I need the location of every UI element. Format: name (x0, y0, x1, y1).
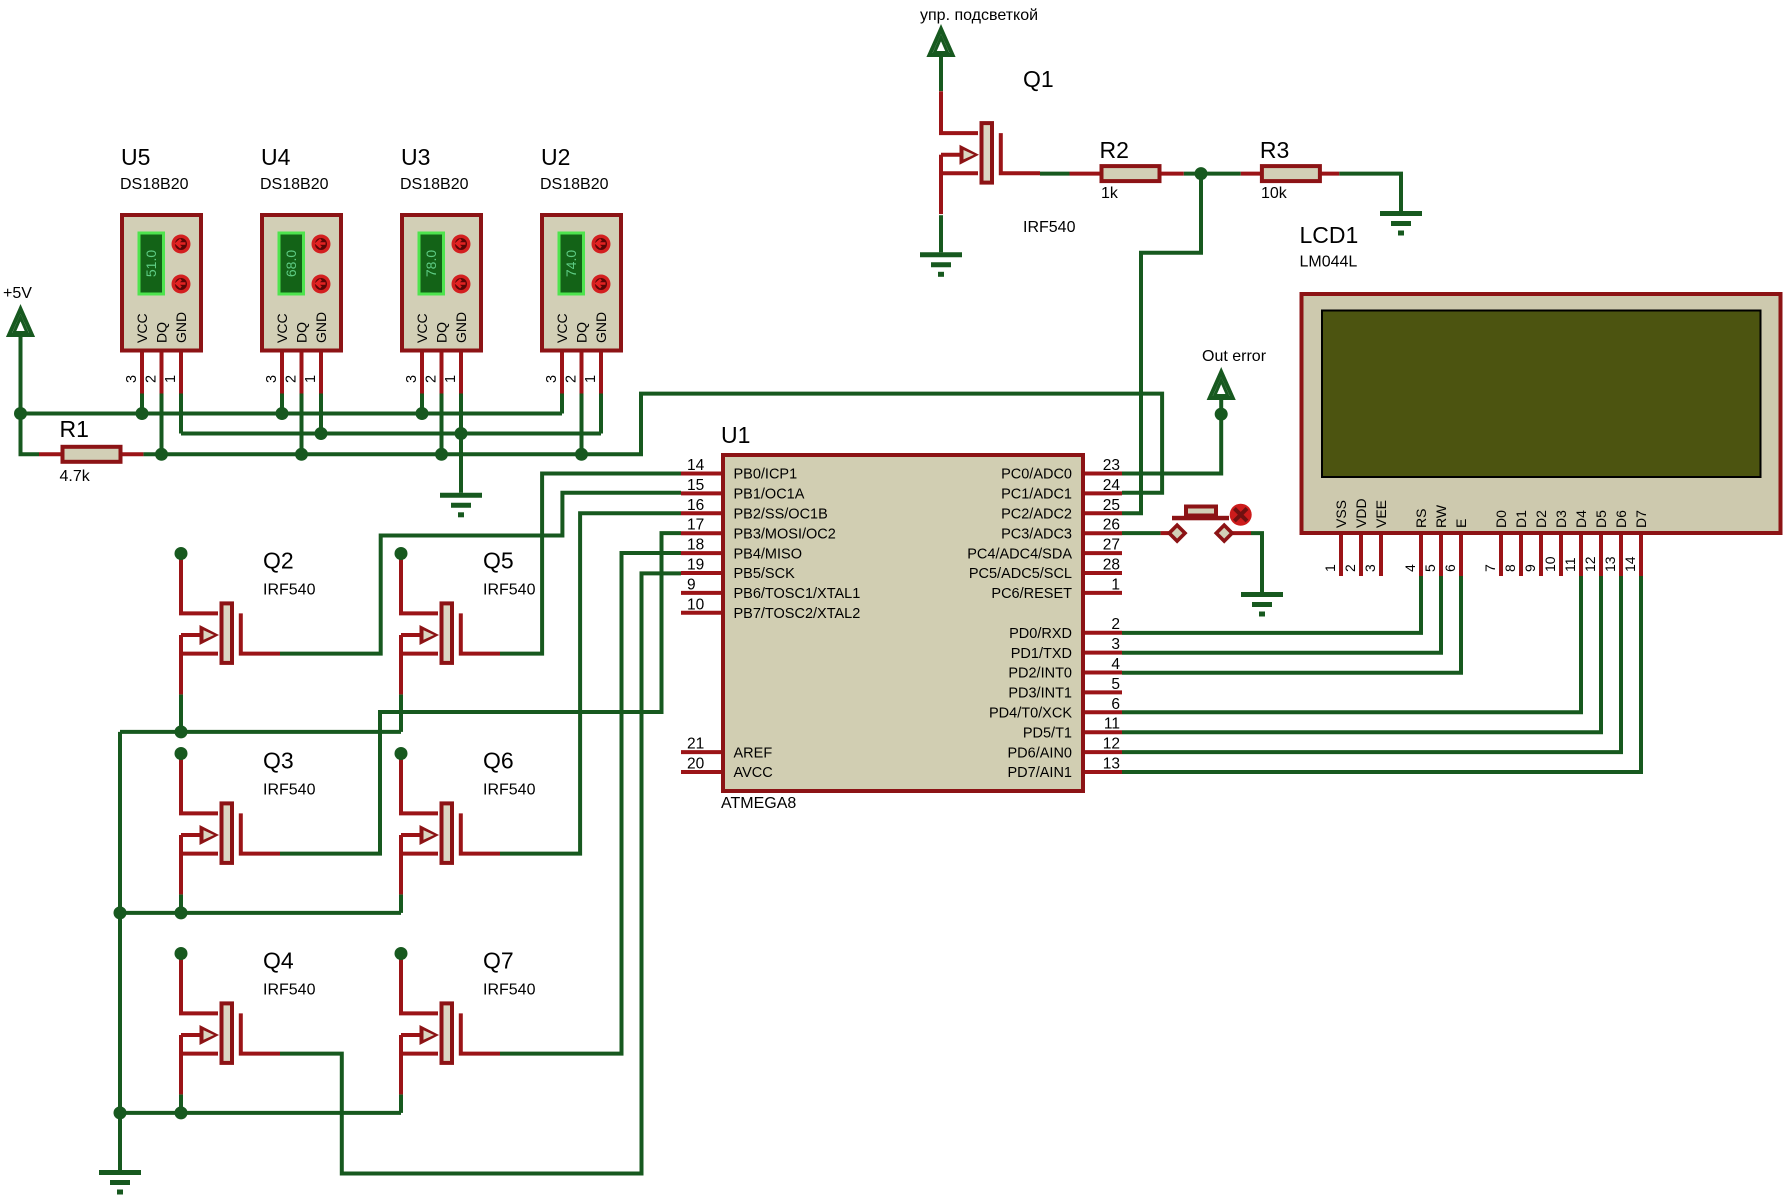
svg-text:Q3: Q3 (263, 748, 294, 774)
svg-text:PD3/INT1: PD3/INT1 (1008, 686, 1072, 702)
svg-text:2: 2 (1342, 564, 1358, 572)
svg-text:PD7/AIN1: PD7/AIN1 (1008, 765, 1072, 781)
svg-text:7: 7 (1482, 564, 1498, 572)
svg-text:PD6/AIN0: PD6/AIN0 (1008, 745, 1072, 761)
svg-text:13: 13 (1602, 556, 1618, 572)
svg-text:PD2/INT0: PD2/INT0 (1008, 666, 1072, 682)
svg-text:1: 1 (1111, 576, 1120, 593)
svg-text:1: 1 (1322, 564, 1338, 572)
svg-text:U5: U5 (121, 144, 150, 170)
svg-text:6: 6 (1442, 564, 1458, 572)
svg-text:D2: D2 (1533, 510, 1549, 528)
svg-text:Q6: Q6 (483, 748, 514, 774)
svg-text:18: 18 (687, 537, 704, 554)
svg-text:PC5/ADC5/SCL: PC5/ADC5/SCL (969, 566, 1072, 582)
svg-text:10k: 10k (1261, 185, 1288, 202)
svg-text:74.0: 74.0 (563, 250, 579, 277)
svg-text:DQ: DQ (574, 322, 590, 343)
svg-text:26: 26 (1103, 517, 1120, 534)
svg-text:VCC: VCC (134, 313, 150, 343)
svg-text:DS18B20: DS18B20 (120, 176, 189, 193)
svg-text:D0: D0 (1493, 510, 1509, 528)
svg-text:PC1/ADC1: PC1/ADC1 (1001, 487, 1072, 503)
svg-text:VEE: VEE (1373, 500, 1389, 528)
svg-text:GND: GND (173, 312, 189, 343)
svg-text:1: 1 (583, 375, 599, 383)
svg-text:21: 21 (687, 736, 704, 753)
svg-text:8: 8 (1502, 564, 1518, 572)
svg-text:GND: GND (453, 312, 469, 343)
svg-text:Q5: Q5 (483, 548, 514, 574)
svg-text:9: 9 (687, 576, 696, 593)
svg-text:4.7k: 4.7k (60, 468, 91, 485)
svg-text:IRF540: IRF540 (1023, 219, 1076, 236)
svg-text:PB1/OC1A: PB1/OC1A (734, 487, 805, 503)
svg-text:4: 4 (1111, 656, 1120, 673)
svg-text:U3: U3 (401, 144, 430, 170)
svg-text:GND: GND (593, 312, 609, 343)
svg-text:PD0/RXD: PD0/RXD (1009, 626, 1072, 642)
svg-text:DQ: DQ (294, 322, 310, 343)
svg-text:PB5/SCK: PB5/SCK (734, 566, 796, 582)
svg-text:IRF540: IRF540 (483, 982, 536, 999)
svg-text:PD5/T1: PD5/T1 (1023, 725, 1072, 741)
svg-text:R2: R2 (1100, 137, 1129, 163)
svg-text:2: 2 (144, 375, 160, 383)
svg-text:PB4/MISO: PB4/MISO (734, 546, 803, 562)
svg-text:1k: 1k (1101, 185, 1119, 202)
svg-text:D5: D5 (1593, 510, 1609, 528)
svg-text:AVCC: AVCC (734, 765, 773, 781)
svg-text:3: 3 (404, 375, 420, 383)
svg-text:VCC: VCC (274, 313, 290, 343)
svg-text:PB0/ICP1: PB0/ICP1 (734, 467, 798, 483)
svg-text:PC0/ADC0: PC0/ADC0 (1001, 467, 1072, 483)
svg-text:PB3/MOSI/OC2: PB3/MOSI/OC2 (734, 526, 836, 542)
svg-text:10: 10 (1542, 556, 1558, 572)
svg-text:D1: D1 (1513, 510, 1529, 528)
svg-text:6: 6 (1111, 696, 1120, 713)
svg-text:12: 12 (1103, 736, 1120, 753)
svg-text:12: 12 (1582, 556, 1598, 572)
svg-text:DQ: DQ (154, 322, 170, 343)
svg-text:14: 14 (1622, 556, 1638, 572)
svg-text:10: 10 (687, 596, 705, 613)
svg-text:+5V: +5V (3, 285, 32, 302)
svg-text:DS18B20: DS18B20 (260, 176, 329, 193)
svg-text:PD1/TXD: PD1/TXD (1011, 646, 1072, 662)
svg-text:VSS: VSS (1333, 500, 1349, 528)
svg-text:VCC: VCC (414, 313, 430, 343)
svg-text:3: 3 (124, 375, 140, 383)
svg-text:LM044L: LM044L (1300, 254, 1358, 271)
svg-text:DQ: DQ (434, 322, 450, 343)
svg-text:28: 28 (1103, 557, 1120, 574)
svg-text:DS18B20: DS18B20 (400, 176, 469, 193)
svg-text:Q2: Q2 (263, 548, 294, 574)
svg-text:17: 17 (687, 517, 704, 534)
svg-text:PC6/RESET: PC6/RESET (991, 586, 1072, 602)
svg-text:U1: U1 (721, 422, 750, 448)
svg-text:2: 2 (1111, 616, 1120, 633)
svg-text:2: 2 (284, 375, 300, 383)
svg-text:1: 1 (443, 375, 459, 383)
svg-text:PB7/TOSC2/XTAL2: PB7/TOSC2/XTAL2 (734, 606, 861, 622)
svg-text:23: 23 (1103, 457, 1120, 474)
svg-text:Out error: Out error (1202, 348, 1267, 365)
svg-text:3: 3 (544, 375, 560, 383)
svg-text:PC2/ADC2: PC2/ADC2 (1001, 507, 1072, 523)
svg-text:Q7: Q7 (483, 948, 514, 974)
svg-text:IRF540: IRF540 (483, 582, 536, 599)
svg-text:U2: U2 (541, 144, 570, 170)
svg-text:D4: D4 (1573, 510, 1589, 528)
svg-text:упр. подсветкой: упр. подсветкой (920, 7, 1038, 24)
svg-text:PC4/ADC4/SDA: PC4/ADC4/SDA (967, 546, 1072, 562)
svg-text:IRF540: IRF540 (263, 782, 316, 799)
svg-text:GND: GND (313, 312, 329, 343)
svg-text:Q4: Q4 (263, 948, 294, 974)
svg-text:R3: R3 (1260, 137, 1289, 163)
svg-text:R1: R1 (60, 416, 89, 442)
svg-text:VCC: VCC (554, 313, 570, 343)
svg-text:LCD1: LCD1 (1300, 222, 1359, 248)
svg-text:16: 16 (687, 497, 704, 514)
svg-text:U4: U4 (261, 144, 291, 170)
svg-text:IRF540: IRF540 (263, 982, 316, 999)
svg-text:24: 24 (1103, 477, 1121, 494)
svg-text:D7: D7 (1633, 510, 1649, 528)
svg-text:E: E (1453, 519, 1469, 528)
svg-text:20: 20 (687, 756, 705, 773)
svg-text:14: 14 (687, 457, 705, 474)
svg-text:1: 1 (303, 375, 319, 383)
svg-text:3: 3 (1111, 636, 1120, 653)
svg-text:3: 3 (1362, 564, 1378, 572)
svg-text:RW: RW (1433, 504, 1449, 528)
svg-text:PD4/T0/XCK: PD4/T0/XCK (989, 706, 1072, 722)
svg-text:VDD: VDD (1353, 498, 1369, 528)
svg-text:IRF540: IRF540 (263, 582, 316, 599)
svg-text:51.0: 51.0 (143, 250, 159, 277)
svg-text:25: 25 (1103, 497, 1120, 514)
svg-text:2: 2 (564, 375, 580, 383)
svg-text:68.0: 68.0 (283, 250, 299, 277)
svg-text:1: 1 (163, 375, 179, 383)
svg-text:3: 3 (264, 375, 280, 383)
svg-text:19: 19 (687, 557, 704, 574)
svg-text:5: 5 (1422, 564, 1438, 572)
svg-text:13: 13 (1103, 756, 1120, 773)
svg-text:2: 2 (424, 375, 440, 383)
svg-text:9: 9 (1522, 564, 1538, 572)
svg-text:15: 15 (687, 477, 704, 494)
svg-text:ATMEGA8: ATMEGA8 (721, 795, 796, 812)
svg-text:11: 11 (1104, 716, 1120, 733)
svg-text:RS: RS (1413, 509, 1429, 528)
svg-text:PB2/SS/OC1B: PB2/SS/OC1B (734, 507, 828, 523)
svg-text:PC3/ADC3: PC3/ADC3 (1001, 526, 1072, 542)
svg-text:DS18B20: DS18B20 (540, 176, 609, 193)
svg-text:4: 4 (1402, 564, 1418, 572)
svg-text:27: 27 (1103, 537, 1120, 554)
svg-text:AREF: AREF (734, 745, 773, 761)
svg-text:IRF540: IRF540 (483, 782, 536, 799)
svg-text:78.0: 78.0 (423, 250, 439, 277)
svg-text:Q1: Q1 (1023, 66, 1054, 92)
svg-text:D6: D6 (1613, 510, 1629, 528)
svg-text:11: 11 (1562, 557, 1578, 572)
svg-text:D3: D3 (1553, 510, 1569, 528)
svg-text:5: 5 (1111, 676, 1120, 693)
svg-text:PB6/TOSC1/XTAL1: PB6/TOSC1/XTAL1 (734, 586, 861, 602)
